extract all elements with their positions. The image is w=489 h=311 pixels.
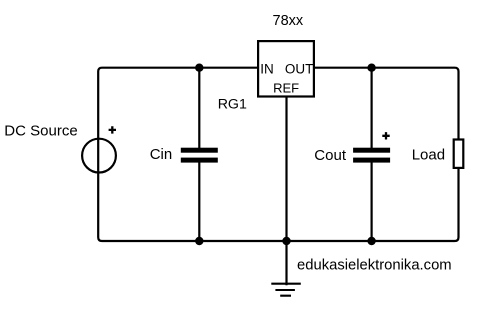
voltage regulator U1 box 78xx (258, 41, 314, 96)
svg-text:78xx: 78xx (273, 13, 304, 29)
wire: Cin branch upper segment (198, 68, 200, 149)
junction node at Cin bottom (195, 237, 203, 245)
junction node at Cout top (367, 63, 375, 71)
DC source polarity plus (109, 126, 116, 133)
svg-text:OUT: OUT (285, 62, 314, 77)
junction node at Cin top (195, 63, 203, 71)
resistor Load box (454, 140, 464, 168)
wire: Cin branch lower segment (198, 162, 200, 241)
DC source V1 circle (82, 139, 116, 173)
svg-text:Cin: Cin (150, 146, 173, 163)
svg-text:Cout: Cout (314, 147, 347, 164)
capacitor Cout top plate (353, 148, 390, 153)
wire: Cout branch upper segment (371, 68, 373, 149)
ground symbol (271, 284, 301, 296)
capacitor Cin bottom plate (181, 158, 218, 163)
svg-text:DC Source: DC Source (4, 122, 77, 139)
Cout polarity plus (382, 132, 389, 139)
junction node at ground/REF (282, 237, 290, 245)
svg-text:IN: IN (260, 62, 274, 77)
capacitor Cin top plate (181, 148, 218, 153)
wire: regulator OUT pin to right rail down to load top (315, 68, 459, 139)
wire: REF pin down to ground (285, 97, 287, 286)
wire: top rail from DC source corner to regulator IN pin (98, 68, 458, 241)
capacitor Cout bottom plate (353, 158, 390, 163)
svg-text:Load: Load (412, 147, 445, 164)
svg-text:REF: REF (273, 81, 299, 96)
junction node at Cout bottom (367, 237, 375, 245)
svg-text:edukasielektronika.com: edukasielektronika.com (297, 258, 452, 274)
wire: Cout branch lower segment (371, 162, 373, 241)
svg-text:RG1: RG1 (218, 97, 247, 113)
